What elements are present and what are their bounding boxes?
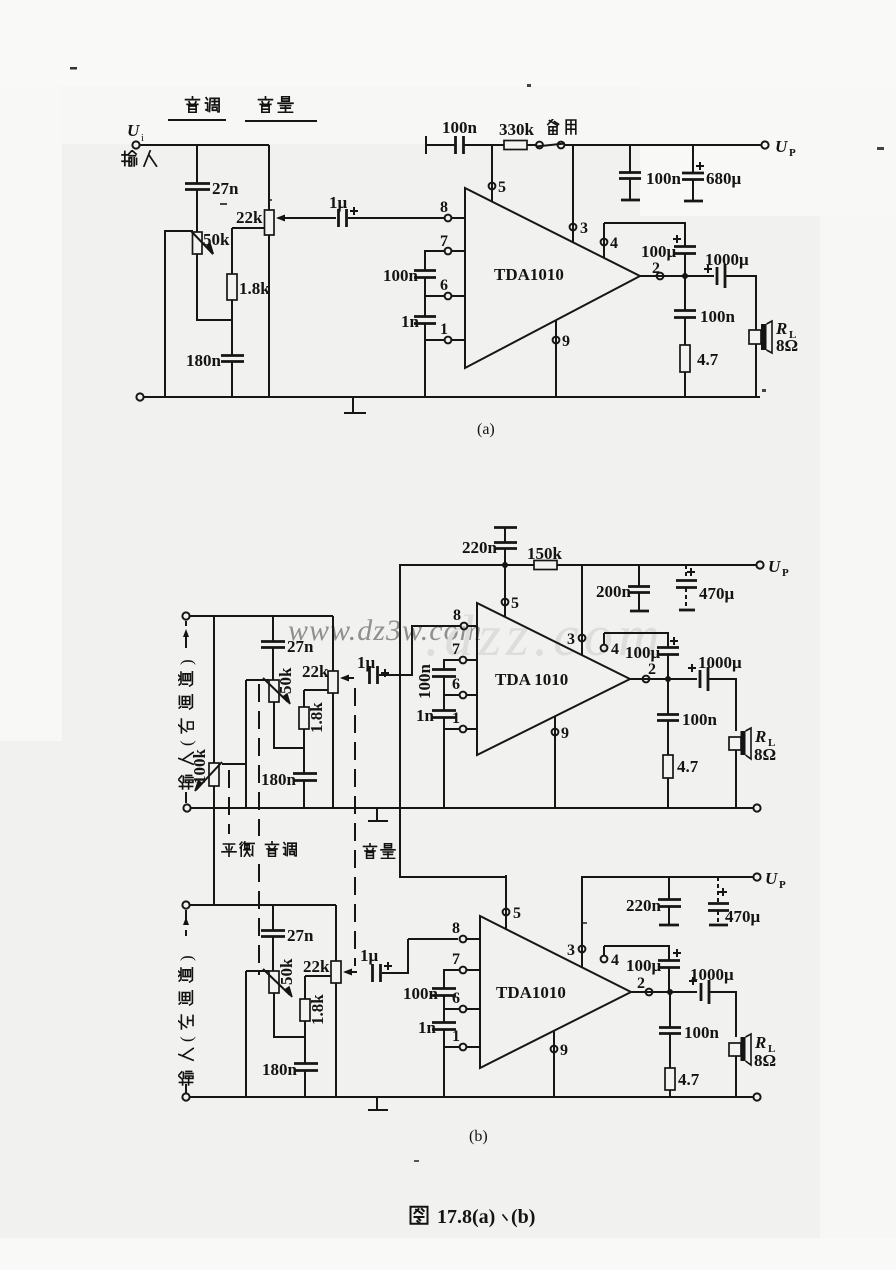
wire output to speaker b2 — [710, 992, 736, 1096]
pin 9 b1 — [552, 716, 569, 808]
svg-text:1μ: 1μ — [360, 946, 379, 965]
svg-text:1000μ: 1000μ — [698, 653, 742, 672]
wire 1.8k top to 22k b1 — [304, 689, 328, 691]
wiper arrow 22k b2 — [343, 969, 357, 976]
capacitor 470u b2 — [708, 877, 761, 926]
wire 1u to pin8 b2 — [382, 939, 408, 973]
svg-text:3: 3 — [567, 942, 575, 959]
ground rail b1 — [183, 804, 760, 811]
wire 100k wiper to ground branch — [222, 680, 246, 808]
wire input top b1 — [190, 615, 333, 617]
wire volume branch vertical — [268, 145, 270, 397]
svg-text:470μ: 470μ — [699, 584, 735, 603]
svg-text:): ) — [177, 955, 196, 961]
svg-text:P: P — [779, 879, 786, 891]
pin 5 b2 — [503, 905, 521, 922]
svg-text:P: P — [782, 567, 789, 579]
power rail top — [426, 136, 762, 154]
svg-text:100μ: 100μ — [626, 956, 662, 975]
svg-text:100k: 100k — [190, 749, 209, 785]
svg-text:U: U — [775, 137, 788, 156]
pin 6 b1 — [452, 676, 477, 698]
capacitor 27n — [185, 179, 239, 198]
label 音调 (tone) with dashed line — [259, 684, 296, 975]
input terminal left channel top — [182, 901, 189, 908]
zobel capacitor 100n b2 — [659, 992, 720, 1068]
svg-text:5: 5 — [511, 595, 519, 612]
input arrow marks bottom — [185, 792, 187, 803]
wire bootstrap loop b1 — [604, 633, 668, 647]
svg-text:U: U — [127, 121, 140, 140]
wire 1.8k top to 22k — [232, 227, 265, 229]
svg-text:100n: 100n — [646, 169, 682, 188]
pin 2 output b2 — [631, 975, 697, 995]
svg-text:U: U — [765, 869, 778, 888]
pin 4 b2 — [601, 946, 619, 969]
svg-text:6: 6 — [440, 277, 448, 294]
wire pins left bus b2 — [444, 970, 459, 1097]
pin 9 b2 — [551, 1031, 568, 1097]
pin 5 b1 — [502, 565, 519, 617]
power rail b2 — [581, 876, 753, 878]
zobel capacitor 100n — [674, 276, 736, 345]
caption 图 17.8(a)、(b) — [411, 1206, 536, 1228]
svg-text:4: 4 — [611, 952, 619, 969]
wire 1.8k top to 22k b2 — [305, 975, 331, 977]
svg-text:27n: 27n — [212, 179, 239, 198]
input arrow marks b2 — [185, 910, 187, 936]
svg-text:150k: 150k — [527, 544, 563, 563]
svg-text:50k: 50k — [203, 230, 230, 249]
capacitor 100n rail — [442, 118, 478, 154]
wire input top — [140, 144, 269, 146]
wire output to speaker b1 — [709, 679, 736, 808]
capacitor 1000u output — [704, 250, 749, 288]
zobel resistor 4.7 — [680, 345, 719, 397]
svg-text:(: ( — [177, 1036, 196, 1042]
svg-text:100n: 100n — [684, 1023, 720, 1042]
wire tone branch vertical — [196, 145, 198, 232]
svg-text:R: R — [754, 727, 766, 746]
capacitor 220n b1 — [462, 528, 517, 569]
svg-text:5: 5 — [513, 905, 521, 922]
svg-text:(b): (b) — [511, 1206, 535, 1228]
ground rail b2 — [182, 1093, 760, 1100]
capacitor 1000u b2 — [689, 965, 734, 1004]
label 音量 (volume) with underline — [245, 97, 317, 121]
wire 1u to pin8 — [348, 217, 444, 219]
svg-text:330k: 330k — [499, 120, 535, 139]
svg-text:1n: 1n — [416, 706, 435, 725]
svg-text:1n: 1n — [401, 312, 420, 331]
capacitor 100u b2 — [626, 949, 681, 992]
pin 6 — [440, 277, 465, 299]
svg-text:100n: 100n — [442, 118, 478, 137]
terminal Up — [761, 137, 796, 159]
wire 1.8k vertical b2 — [304, 976, 306, 1097]
svg-text:100n: 100n — [700, 307, 736, 326]
svg-text:R: R — [754, 1033, 766, 1052]
pin 6 b2 — [452, 990, 480, 1012]
wire input top b2 — [190, 904, 336, 906]
svg-text:TDA 1010: TDA 1010 — [495, 670, 568, 689]
switch 备用 (spare) — [536, 119, 576, 148]
pin 7 — [440, 233, 465, 254]
svg-text:22k: 22k — [236, 208, 263, 227]
capacitor 1000u b1 — [688, 653, 742, 691]
ground rail bottom — [136, 393, 760, 400]
svg-text:100μ: 100μ — [625, 643, 661, 662]
svg-text:i: i — [141, 133, 144, 144]
capacitor 680u — [682, 145, 742, 201]
svg-text:100n: 100n — [682, 710, 718, 729]
svg-text:8Ω: 8Ω — [754, 745, 776, 764]
ground symbol b2 — [368, 1097, 388, 1110]
pin 1 b2 — [452, 1028, 480, 1050]
wire wiper to 1u — [290, 217, 336, 219]
op-amp U2 TDA 1010 — [477, 603, 630, 755]
svg-text:180n: 180n — [261, 770, 297, 789]
terminal Up b2 — [753, 869, 786, 891]
svg-text:6: 6 — [452, 676, 460, 693]
svg-text:4: 4 — [611, 641, 619, 658]
svg-text:2: 2 — [648, 661, 656, 678]
svg-text:4: 4 — [610, 235, 618, 252]
input terminal right channel top — [182, 612, 189, 619]
svg-text:4.7: 4.7 — [678, 1070, 700, 1089]
svg-text:4.7: 4.7 — [677, 757, 699, 776]
terminal Up b1 — [756, 557, 789, 579]
capacitor 100n decoupling — [383, 266, 436, 285]
resistor 1.8k — [227, 274, 270, 300]
wire balance line vertical — [213, 616, 215, 905]
wire volume vertical b1 — [332, 616, 334, 808]
svg-text:(a): (a) — [477, 421, 495, 438]
svg-text:8Ω: 8Ω — [754, 1051, 776, 1070]
capacitor 180n — [186, 351, 244, 370]
pin 5 — [489, 145, 506, 202]
label 音量 (volume) with dashed line — [355, 688, 395, 966]
svg-text:): ) — [177, 659, 196, 665]
capacitor 100u b1 — [625, 637, 679, 679]
svg-text:50k: 50k — [277, 958, 296, 985]
potentiometer 50k b2 — [246, 958, 296, 997]
svg-text:TDA1010: TDA1010 — [494, 265, 564, 284]
svg-text:4.7: 4.7 — [697, 350, 719, 369]
potentiometer 22k — [236, 208, 274, 235]
ground symbol — [344, 397, 366, 413]
svg-text:(b): (b) — [469, 1128, 488, 1145]
svg-text:1.8k: 1.8k — [307, 702, 326, 733]
pin 8 — [440, 199, 465, 221]
svg-text:1μ: 1μ — [357, 653, 376, 672]
op-amp U3 TDA1010 — [480, 916, 631, 1068]
wire rail feed down to b2 — [399, 565, 401, 877]
svg-text:U: U — [768, 557, 781, 576]
wire 50k bottom to 1.8k bottom — [197, 254, 232, 320]
pin 1 — [440, 321, 465, 343]
capacitor 1u b2 — [360, 946, 392, 982]
wiper arrow 22k b1 — [340, 675, 354, 682]
pin 3 b2 — [567, 877, 585, 967]
svg-text:6: 6 — [452, 990, 460, 1007]
svg-text:2: 2 — [652, 260, 660, 277]
potentiometer 50k — [191, 230, 230, 254]
label 平衡 (balance) with dashed line — [222, 770, 254, 857]
svg-text:220n: 220n — [626, 896, 662, 915]
zobel capacitor 100n b1 — [657, 679, 718, 755]
svg-text:17.8(a): 17.8(a) — [437, 1206, 495, 1228]
potentiometer 22k b1 — [302, 662, 338, 693]
svg-text:7: 7 — [452, 641, 460, 658]
resistor 1.8k b2 — [300, 994, 327, 1025]
capacitor 180n b1 — [261, 770, 317, 789]
svg-text:220n: 220n — [462, 538, 498, 557]
label 音调 (tone) with underline — [168, 97, 226, 120]
power rail b1 — [399, 564, 757, 566]
svg-text:180n: 180n — [186, 351, 222, 370]
resistor 150k — [527, 544, 563, 570]
svg-text:100n: 100n — [383, 266, 419, 285]
pin 3 — [570, 145, 588, 243]
zobel resistor 4.7 b1 — [663, 755, 699, 808]
pin 2 output — [640, 260, 714, 279]
speaker RL 8ohm b2 — [729, 1033, 776, 1070]
pin 8 b1 — [453, 607, 477, 629]
svg-text:200n: 200n — [596, 582, 632, 601]
label 输入（右通道） rotated — [177, 659, 196, 789]
svg-text:100n: 100n — [403, 984, 439, 1003]
capacitor 100n b1 rotated label — [415, 664, 456, 700]
potentiometer 50k b1 — [246, 667, 295, 704]
capacitor 1n b2 — [418, 1018, 456, 1037]
capacitor 1n — [401, 312, 436, 331]
pin 2 output b1 — [630, 661, 697, 682]
wire bootstrap loop — [604, 223, 685, 246]
wire output to speaker — [726, 276, 756, 397]
wire bootstrap loop b2 — [604, 946, 669, 960]
svg-text:3: 3 — [580, 220, 588, 237]
svg-text:27n: 27n — [287, 926, 314, 945]
svg-text:680μ: 680μ — [706, 169, 742, 188]
svg-text:1n: 1n — [418, 1018, 437, 1037]
pin 1 b1 — [452, 710, 477, 732]
svg-text:180n: 180n — [262, 1060, 298, 1079]
wiper arrow 22k — [276, 215, 292, 222]
wire pins left bus b1 — [444, 660, 459, 808]
svg-text:1μ: 1μ — [329, 193, 348, 212]
scan speck top — [70, 67, 77, 70]
svg-text:2: 2 — [637, 975, 645, 992]
svg-text:22k: 22k — [302, 662, 329, 681]
svg-text:100n: 100n — [415, 664, 434, 700]
ground symbol b1 — [368, 808, 388, 821]
potentiometer 22k b2 — [303, 957, 341, 983]
input arrow marks top — [185, 621, 187, 648]
input terminal — [132, 141, 139, 148]
capacitor 180n b2 — [262, 1060, 318, 1079]
svg-text:22k: 22k — [303, 957, 330, 976]
svg-text:9: 9 — [562, 333, 570, 350]
speaker RL 8ohm b1 — [729, 727, 776, 764]
wire 50k top-left — [165, 231, 193, 397]
wire 1.8k vertical — [231, 228, 233, 397]
svg-text:1.8k: 1.8k — [239, 279, 270, 298]
speaker RL 8ohm — [749, 319, 798, 355]
pin 4 — [601, 223, 618, 258]
capacitor 1n b1 — [416, 706, 456, 725]
wire pin7 pin6 pin1 left bus — [425, 251, 444, 397]
svg-text:5: 5 — [498, 179, 506, 196]
svg-text:8: 8 — [453, 607, 461, 624]
svg-text:470μ: 470μ — [725, 907, 761, 926]
svg-text:7: 7 — [452, 951, 460, 968]
pin 9 — [553, 320, 570, 397]
capacitor 100n filter — [619, 145, 682, 200]
capacitor 27n b2 — [261, 905, 314, 971]
svg-text:(: ( — [177, 740, 196, 746]
svg-text:9: 9 — [561, 725, 569, 742]
capacitor 100u — [641, 235, 696, 276]
svg-text:27n: 27n — [287, 637, 314, 656]
wire 50k bottom b1 — [274, 702, 304, 748]
pin 4 b1 — [601, 633, 619, 658]
pin 7 b2 — [452, 951, 480, 973]
pin 8 b2 — [452, 920, 480, 942]
op-amp U1 TDA1010 — [465, 188, 640, 368]
svg-text:8Ω: 8Ω — [776, 336, 798, 355]
capacitor 100n b2 — [403, 984, 456, 1003]
zobel resistor 4.7 b2 — [665, 1068, 700, 1096]
svg-text:9: 9 — [560, 1042, 568, 1059]
capacitor 220n b2 — [626, 877, 681, 925]
capacitor 1u polarized — [329, 193, 358, 227]
svg-text:TDA1010: TDA1010 — [496, 983, 566, 1002]
wire 1.8k vertical b1 — [303, 690, 305, 808]
wire 1u to pin8 b1 — [379, 626, 460, 675]
label 输入（左通道） rotated — [177, 955, 196, 1085]
wire 50k bottom b2 — [274, 993, 305, 1037]
svg-text:100μ: 100μ — [641, 242, 677, 261]
svg-text:P: P — [789, 147, 796, 159]
pin 7 b1 — [452, 641, 477, 663]
svg-text:1: 1 — [440, 321, 448, 338]
node Ui input label — [127, 121, 144, 144]
svg-text:1000μ: 1000μ — [705, 250, 749, 269]
capacitor 1u b1 — [357, 653, 389, 684]
svg-text:50k: 50k — [276, 667, 295, 694]
resistor 330k — [499, 120, 535, 150]
wire volume vertical b2 — [335, 905, 337, 1097]
svg-text:8: 8 — [440, 199, 448, 216]
pin 3 b1 — [567, 565, 585, 655]
potentiometer 100k balance — [190, 749, 222, 792]
svg-text:3: 3 — [567, 631, 575, 648]
wire 50k left branch b2 — [245, 971, 247, 1097]
capacitor 27n b1 — [261, 616, 314, 680]
label 输入 (input) — [122, 150, 156, 166]
svg-text:1000μ: 1000μ — [690, 965, 734, 984]
svg-text:1.8k: 1.8k — [308, 994, 327, 1025]
svg-text:7: 7 — [440, 233, 448, 250]
capacitor 470u b1 — [676, 565, 735, 610]
resistor 1.8k b1 — [299, 702, 326, 733]
svg-text:8: 8 — [452, 920, 460, 937]
capacitor 200n b1 — [596, 565, 650, 611]
